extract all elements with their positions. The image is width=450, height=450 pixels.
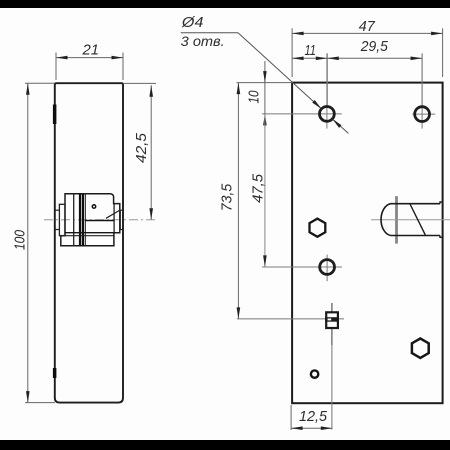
dimension 42,5 line	[150, 85, 152, 219]
latch left flange	[59, 204, 65, 235]
latch slot step bottom	[440, 236, 443, 238]
svg-text:47: 47	[359, 18, 376, 35]
latch horizontal line low 2	[59, 235, 114, 237]
clip horizontal centerline / 73,5 extension	[237, 318, 344, 320]
hole 1 crosshair	[326, 54, 328, 129]
latch centerline (front view)	[371, 219, 450, 221]
svg-text:11: 11	[304, 42, 316, 59]
dimension 11 line	[292, 57, 422, 59]
dimension 11 arrows	[292, 57, 304, 61]
latch bolt outline (front view)	[381, 204, 440, 236]
svg-text:42,5: 42,5	[133, 132, 150, 163]
svg-text:100: 100	[12, 229, 29, 250]
leader arrow upper	[312, 100, 321, 109]
dimension 11 / 29,5 extension lines	[326, 53, 328, 105]
dimension 10 arrows (outside)	[263, 71, 267, 83]
latch horizontal line mid	[85, 220, 114, 222]
svg-text:Ø4: Ø4	[181, 14, 204, 31]
latch inner vertical thin	[73, 194, 75, 246]
hole 3 crosshair	[326, 255, 328, 282]
small circle hole	[311, 370, 318, 377]
dimension 47,5 line	[264, 114, 266, 267]
latch right flange inner edge	[113, 204, 115, 233]
dimension 29,5 arrows	[327, 57, 339, 61]
leader diagonal	[238, 33, 321, 109]
side view body outline	[55, 83, 123, 402]
dimension 42,5 arrows	[149, 85, 153, 97]
dimension 73,5 line	[237, 83, 239, 319]
dimension 21 arrows	[56, 56, 68, 60]
latch horizontal line low 1	[65, 232, 114, 234]
latch right tab lines	[120, 209, 123, 211]
svg-text:21: 21	[82, 42, 99, 59]
svg-text:73,5: 73,5	[219, 183, 236, 211]
hole 2	[415, 107, 430, 122]
latch slot grey line (front view)	[395, 196, 398, 243]
latch block (side view)	[61, 194, 120, 246]
hole 3	[320, 260, 335, 275]
edge weld mark lower	[53, 368, 57, 378]
hole 2 crosshair	[421, 54, 423, 129]
hexagon nut 2	[412, 339, 429, 358]
latch slot step top	[440, 202, 443, 204]
dimension 47 arrows	[292, 32, 304, 36]
clip middle band	[325, 317, 339, 322]
svg-text:10: 10	[246, 90, 263, 104]
dimension 12,5 extension lines	[290, 405, 292, 430]
dimension 47,5 bottom arrow	[263, 255, 267, 267]
bottom black bar	[0, 440, 450, 450]
latch centerline (side view)	[44, 219, 156, 221]
hexagon nut 1	[310, 219, 326, 237]
dimension 12,5 line	[291, 427, 332, 429]
svg-text:3 отв.: 3 отв.	[181, 33, 225, 49]
latch dark stripe 2	[82, 194, 84, 246]
front plate outline	[292, 83, 443, 404]
clip middle band notch	[328, 319, 332, 321]
svg-text:12,5: 12,5	[299, 408, 328, 425]
latch screw hole	[92, 205, 95, 208]
latch inner vertical thin 2	[84, 194, 86, 246]
dimension 21 extension lines	[55, 53, 57, 81]
svg-text:47,5: 47,5	[249, 173, 266, 203]
dimension 47 line	[292, 32, 443, 34]
latch dark stripe 1	[79, 194, 81, 246]
latch chamfer diagonal	[106, 211, 119, 219]
latch bevel diagonal	[410, 204, 425, 235]
edge weld mark upper	[53, 105, 57, 125]
dimension 73,5 arrows	[237, 83, 241, 95]
leader arrow lower	[332, 119, 341, 128]
hole 1	[320, 107, 335, 122]
dimension 100 arrows	[26, 83, 30, 95]
dimension 21 line	[56, 57, 123, 59]
svg-text:29,5: 29,5	[360, 38, 389, 55]
dimension 47 extension lines	[291, 28, 293, 77]
dimension 42,5 extension line top	[123, 82, 156, 84]
dimension 12,5 arrows	[291, 426, 303, 430]
top black bar	[0, 0, 450, 8]
dimension 73,5 extension top	[237, 82, 293, 84]
latch left tab lines	[55, 209, 60, 211]
clip body	[326, 312, 338, 328]
leader shelf	[181, 32, 238, 34]
dimension 100 extension lines	[25, 82, 55, 84]
dimension 100 line	[27, 83, 29, 402]
dimension 10 line	[264, 61, 266, 127]
clip centerline vertical	[331, 303, 333, 345]
